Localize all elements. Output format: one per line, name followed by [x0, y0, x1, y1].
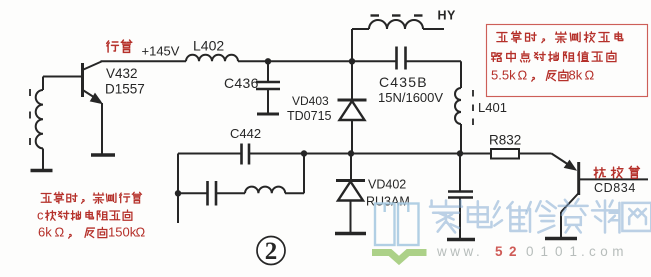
svg-text:2: 2 — [265, 238, 278, 265]
svg-text:HY: HY — [438, 9, 457, 23]
svg-text:C442: C442 — [230, 126, 261, 141]
svg-text:150k: 150k — [108, 225, 137, 240]
svg-text:8k: 8k — [569, 68, 583, 83]
svg-text:Ω: Ω — [136, 225, 146, 240]
svg-text:.: . — [581, 244, 585, 259]
svg-text:6k: 6k — [38, 225, 52, 240]
svg-text:5.5k: 5.5k — [491, 68, 516, 83]
svg-text:RU3AM: RU3AM — [366, 195, 410, 209]
svg-text:15N/1600V: 15N/1600V — [378, 90, 443, 105]
svg-text:CD834: CD834 — [594, 181, 636, 195]
svg-text:L402: L402 — [193, 38, 224, 54]
svg-text:L401: L401 — [478, 100, 507, 115]
svg-text:Ω: Ω — [55, 225, 65, 240]
svg-text:0101: 0101 — [526, 244, 584, 259]
svg-text:52: 52 — [495, 244, 523, 259]
svg-text:C436: C436 — [224, 75, 259, 91]
svg-text:VD402: VD402 — [368, 178, 406, 192]
svg-text:C435B: C435B — [379, 74, 428, 90]
svg-text:com: com — [589, 244, 628, 259]
svg-text:Ω: Ω — [518, 68, 528, 83]
svg-text:TD0715: TD0715 — [287, 109, 332, 123]
svg-text:R832: R832 — [489, 133, 521, 148]
svg-text:+145V: +145V — [142, 44, 180, 59]
svg-text:VD403: VD403 — [292, 94, 329, 108]
svg-text:www.: www. — [436, 244, 483, 259]
svg-text:V432: V432 — [106, 66, 138, 81]
svg-text:Ω: Ω — [585, 68, 595, 83]
svg-text:c: c — [37, 207, 44, 222]
svg-text:D1557: D1557 — [105, 82, 145, 97]
